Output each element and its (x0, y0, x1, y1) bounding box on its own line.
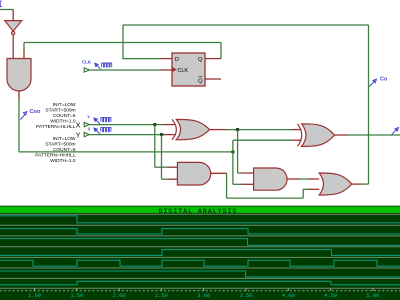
svg-text:3.00: 3.00 (197, 293, 210, 299)
wire stub XOR1 output (210, 129, 226, 131)
inverter U1 (5, 21, 22, 32)
wire input top-left (0, 9, 13, 11)
analyzer panel background (0, 206, 400, 300)
svg-text:2.00: 2.00 (113, 293, 126, 299)
wire stub OR upper input (308, 178, 319, 180)
wire Q up to feedback (220, 43, 222, 59)
wire feedback Q to AND1 input (24, 42, 221, 44)
svg-text:Q: Q (198, 57, 203, 63)
trace row5 CLK (0, 260, 400, 266)
wire junction down to AND2 upper input (237, 130, 239, 173)
node junction carry (231, 150, 234, 153)
node junction Y (160, 133, 163, 136)
axis tick marks (34, 289, 36, 291)
wire stub D input (160, 58, 172, 60)
probe arrow clk (95, 63, 101, 69)
probe arrow y (94, 128, 100, 134)
svg-text:X: X (76, 122, 81, 129)
wire AND3 out down (226, 173, 228, 198)
svg-text:PATTERN=HHHLL: PATTERN=HHHLL (35, 153, 76, 159)
xor gate XOR1 (176, 119, 209, 139)
svg-text:Q: Q (198, 78, 203, 84)
wire Y down to AND3 (161, 135, 163, 180)
wire stub AND2 upper input (242, 172, 253, 174)
wire stub OR output (352, 183, 363, 185)
trace row4 (0, 250, 400, 256)
trace row3 Y (0, 239, 400, 246)
svg-text:1.00: 1.00 (28, 293, 41, 299)
trace row1 (0, 216, 400, 223)
wire AND1 output down (18, 100, 20, 152)
svg-text:INIT=LOW: INIT=LOW (53, 102, 76, 108)
or-gate OR1 (319, 173, 352, 195)
wire XOR1 out to XOR2 (225, 129, 293, 131)
wire stub XOR2 output (335, 134, 349, 136)
trace row2 X (0, 229, 400, 234)
xor gate XOR2 (302, 124, 335, 147)
waveform glyph clk (102, 63, 112, 67)
svg-text:CLK: CLK (178, 68, 189, 74)
wire stub AND1 right input (23, 49, 25, 58)
time axis dashed line (0, 290, 400, 292)
source glyph sliver (clipped waveform symbol) (0, 1, 2, 7)
wire stub CLK input (160, 69, 172, 71)
probe arrow Co (369, 79, 376, 86)
svg-text:Y: Y (76, 132, 81, 139)
wire top loop horizontal (123, 24, 369, 26)
svg-text:WIDTH=1.0: WIDTH=1.0 (50, 158, 76, 164)
svg-text:2.50: 2.50 (155, 293, 168, 299)
svg-text:4.50: 4.50 (324, 293, 337, 299)
wire junction down to AND2 lower input (232, 152, 234, 184)
wire stub AND2 lower input (242, 183, 253, 185)
waveform glyph x (101, 118, 111, 122)
svg-text:D: D (175, 57, 179, 63)
wire stub OR lower input (308, 188, 319, 190)
wire stub XOR2 upper input (292, 129, 302, 131)
wire OR out to loop (362, 183, 369, 185)
wire D input from loop (123, 58, 161, 60)
trace row7 (0, 281, 400, 285)
wire stub AND2 output (287, 178, 299, 180)
node junction X (153, 123, 156, 126)
svg-text:y: y (88, 126, 91, 131)
wire AND3 out up to OR (302, 189, 304, 198)
source pin CLK (84, 68, 89, 72)
wire inverter out to AND1 (12, 35, 14, 59)
svg-text:4.00: 4.00 (282, 293, 295, 299)
wire stub QB output (dangling) (205, 78, 221, 80)
wire stub AND3 input B (168, 178, 178, 180)
svg-text:x: x (87, 114, 90, 119)
svg-text:CLK: CLK (82, 60, 92, 65)
wire stub XOR1 input A (163, 124, 174, 126)
svg-text:3.50: 3.50 (240, 293, 253, 299)
svg-text:WIDTH=1.0: WIDTH=1.0 (50, 119, 76, 125)
wire S output to edge (348, 134, 400, 136)
wire stub AND3 output (211, 172, 227, 174)
svg-text:START=500m: START=500m (45, 142, 75, 148)
wire into inverter (12, 10, 14, 21)
analyzer title bar (0, 206, 400, 207)
svg-text:PATTERN=HLHLL: PATTERN=HLHLL (36, 124, 76, 130)
wire stub AND3 input A (168, 166, 178, 168)
svg-text:COUNT=5: COUNT=5 (53, 113, 76, 119)
wire junction up to XOR2 lower input (232, 140, 234, 152)
svg-text:INIT=LOW: INIT=LOW (53, 136, 76, 142)
probe arrow Coo (21, 112, 27, 120)
and-gate AND3 (177, 162, 210, 185)
probe arrow x (94, 118, 100, 124)
wire Y to XOR1 (89, 134, 164, 136)
wire X down to AND3 (154, 125, 156, 168)
wire stub AND1 output (18, 91, 20, 100)
and-gate AND1 (vertical) (7, 59, 31, 92)
svg-text:Co: Co (380, 76, 388, 82)
wire CLK to flip-flop (89, 69, 161, 71)
svg-text:Coo: Coo (30, 109, 41, 115)
wire AND3 out right (227, 197, 304, 199)
source pin X (84, 123, 89, 127)
trace row6 (0, 271, 400, 277)
svg-text:COUNT=5: COUNT=5 (53, 147, 76, 153)
wire AND1 output right to junction (19, 151, 233, 153)
svg-text:START=500m: START=500m (45, 108, 75, 114)
probe arrow S (392, 128, 399, 135)
wire stub XOR1 input B (163, 134, 174, 136)
wire top loop down right (368, 25, 370, 184)
wire X to XOR1 (89, 124, 164, 126)
wire stub XOR2 lower input (292, 139, 302, 141)
wire AND2 out to OR (298, 178, 309, 180)
svg-text:5.00: 5.00 (366, 293, 379, 299)
wire vertical to D (122, 25, 124, 59)
svg-text:1.50: 1.50 (70, 293, 83, 299)
flip-flop U2 (172, 53, 205, 86)
clock edge marker (172, 67, 177, 72)
wire stub Q output (205, 58, 221, 60)
analyzer row separators (0, 213, 400, 215)
source pin Y (84, 133, 89, 137)
node junction sum1 (236, 128, 239, 131)
waveform glyph y (101, 128, 111, 132)
and-gate AND2 (254, 168, 287, 190)
